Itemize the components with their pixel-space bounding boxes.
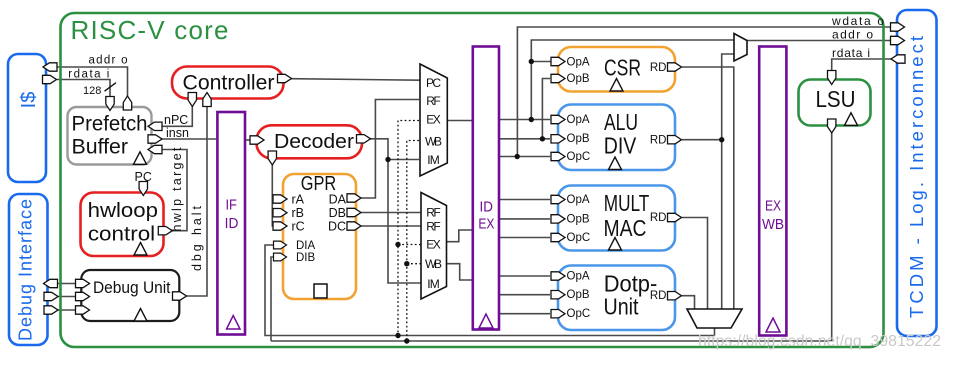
svg-text:rdata i: rdata i	[832, 46, 870, 60]
svg-text:PC: PC	[135, 170, 152, 184]
wire mux2 output jog lower to ID/EX	[446, 264, 473, 280]
svg-text:EX: EX	[478, 216, 494, 233]
wire GPR DC to mux2 RF input	[361, 225, 421, 227]
port LSU out	[828, 119, 836, 133]
svg-text:OpB: OpB	[567, 133, 590, 145]
CSR clock	[610, 79, 623, 92]
port Prefetch insn	[148, 135, 162, 143]
port GPR DB	[347, 208, 361, 216]
wire ID/EX OpB line to ALU	[499, 138, 550, 140]
wire ALU RD up to addr mux	[722, 54, 734, 140]
svg-text:DIA: DIA	[296, 240, 316, 252]
labels GPR ports	[292, 192, 347, 263]
port Debug Unit in1	[76, 279, 90, 287]
svg-text:IF: IF	[225, 197, 237, 214]
wire ID/EX to MULT OpB	[499, 218, 550, 220]
svg-text:128: 128	[83, 85, 101, 97]
port ALU OpA	[551, 115, 565, 123]
port I$ rdata in	[43, 75, 57, 83]
port LSU rdata in	[828, 71, 836, 85]
wire ALU RD down to writeback mux	[721, 140, 723, 309]
svg-text:WB: WB	[425, 135, 442, 149]
wire GPR DB to mux2 RF input	[361, 212, 421, 214]
svg-text:RD: RD	[650, 134, 667, 146]
wire rdata_i to LSU	[832, 59, 891, 70]
svg-text:addr o: addr o	[89, 54, 128, 66]
svg-text:IM: IM	[427, 153, 440, 167]
svg-text:EX: EX	[426, 238, 441, 252]
port wdata_o	[891, 23, 905, 31]
svg-text:CSR: CSR	[604, 55, 641, 81]
port MULT OpC	[551, 233, 565, 241]
wire Controller output to mux1 PC input	[291, 79, 420, 81]
svg-text:OpB: OpB	[567, 213, 590, 225]
mux addr select	[734, 34, 747, 62]
svg-text:RF: RF	[426, 206, 441, 220]
svg-text:RF: RF	[426, 220, 441, 234]
port Prefetch hwlp target	[148, 145, 162, 153]
Prefetch Buffer box	[68, 107, 152, 165]
svg-text:DB: DB	[329, 206, 346, 220]
ALU clock	[609, 157, 622, 170]
port Controller dbg in	[203, 93, 211, 107]
svg-text:MAC: MAC	[604, 215, 647, 241]
wire GPR DIB from line2	[271, 257, 274, 341]
wire MULT RD down to writeback mux	[682, 218, 708, 310]
mux writeback select	[687, 309, 742, 328]
port Prefetch nPC	[148, 122, 162, 130]
wire GPR DA to mux1 RF input	[361, 100, 419, 199]
svg-text:DIB: DIB	[296, 252, 316, 264]
port Dotp RD	[668, 292, 682, 300]
Controller box	[172, 67, 284, 99]
svg-text:LSU: LSU	[816, 86, 856, 112]
port Prefetch rdata top	[106, 97, 114, 111]
port Debug Unit in2	[76, 292, 90, 300]
port CSR RD	[668, 63, 682, 71]
port hwloop target out	[158, 227, 172, 235]
hwloop control clock	[134, 243, 147, 256]
wire debug interface to debug unit 2	[58, 296, 76, 298]
port ALU RD	[668, 136, 682, 144]
wire ID/EX to Dotp OpB	[499, 294, 550, 296]
svg-text:ALU: ALU	[604, 109, 638, 135]
port MULT OpB	[551, 215, 565, 223]
svg-text:control: control	[88, 223, 155, 246]
wire ID/EX OpA line to ALU	[499, 119, 550, 121]
svg-text:DC: DC	[328, 220, 346, 234]
LSU box	[799, 80, 871, 126]
svg-text:ID: ID	[225, 215, 239, 232]
wire ID/EX to MULT OpC	[499, 237, 550, 239]
port I$ addr out	[43, 63, 57, 71]
svg-text:WB: WB	[762, 216, 784, 233]
svg-text:Prefetch: Prefetch	[72, 112, 148, 136]
port Debug Unit out	[173, 292, 187, 300]
svg-text:DA: DA	[329, 192, 347, 206]
port GPR rA	[273, 195, 287, 203]
port ALU OpB	[551, 135, 565, 143]
svg-text:hwloop: hwloop	[88, 199, 158, 222]
wire hwlp_target hwloop control to Prefetch Buffer	[161, 150, 187, 231]
svg-text:OpB: OpB	[567, 73, 590, 85]
port Dotp OpC	[551, 310, 565, 318]
port MULT OpA	[551, 195, 565, 203]
svg-text:OpA: OpA	[567, 270, 590, 282]
svg-text:rB: rB	[292, 206, 305, 220]
ALU DIV box	[558, 105, 675, 171]
EX/WB pipeline register	[759, 47, 786, 336]
svg-text:RD: RD	[650, 62, 667, 74]
svg-text:OpB: OpB	[567, 289, 590, 301]
svg-text:Unit: Unit	[604, 294, 640, 320]
port Debug Interface in1	[44, 292, 58, 300]
wire mux1 output to ID/EX	[447, 120, 473, 122]
svg-text:MULT: MULT	[604, 190, 650, 216]
wire addr mux output to addr_o	[747, 40, 891, 42]
wire nPC from Controller to Prefetch Buffer	[161, 105, 192, 126]
wire debug interface to debug unit 3	[58, 309, 76, 311]
wire ID/EX to Dotp OpA	[499, 275, 550, 277]
wire Dotp RD down to writeback mux	[682, 296, 695, 309]
port Debug Interface out	[44, 279, 58, 287]
svg-text:DIV: DIV	[604, 133, 637, 159]
wire dbg_halt Debug Unit to Controller	[187, 105, 208, 296]
bus width slash on rdata_i	[105, 83, 117, 92]
svg-text:TCDM - Log. Interconnect: TCDM - Log. Interconnect	[906, 36, 927, 318]
TCDM Log Interconnect box	[897, 10, 937, 336]
svg-text:I$: I$	[18, 92, 40, 109]
svg-text:RISC-V core: RISC-V core	[71, 15, 230, 45]
svg-text:WB: WB	[425, 257, 442, 271]
svg-text:RD: RD	[650, 290, 667, 302]
Dotp-Unit box	[558, 266, 675, 331]
svg-text:rdata i: rdata i	[68, 68, 109, 80]
wire Decoder output to IM nets	[370, 139, 421, 283]
port CSR OpB	[551, 74, 565, 82]
port PC into hwloop	[139, 182, 147, 196]
ID/EX clock	[479, 314, 493, 328]
svg-text:dbg halt: dbg halt	[190, 205, 204, 271]
svg-text:hwlp target: hwlp target	[170, 147, 184, 232]
wire CSR RD down to writeback mux	[682, 67, 734, 309]
svg-text:RD: RD	[650, 212, 667, 224]
MULT MAC box	[558, 186, 675, 251]
port Decoder regs down	[268, 151, 276, 165]
port Controller nPC out	[188, 93, 196, 107]
I$ box	[8, 54, 46, 182]
wire branch to CSR OpB	[542, 79, 550, 139]
svg-text:EX: EX	[765, 198, 781, 215]
wire writeback line1 to GPR DIA	[265, 245, 715, 336]
svg-text:ID: ID	[480, 199, 494, 216]
dashed EX forwarding net	[398, 121, 421, 336]
port Decoder out	[357, 135, 371, 143]
port Dotp OpB	[551, 291, 565, 299]
port Decoder in	[250, 136, 264, 144]
labels Dotp ports	[567, 270, 667, 320]
wire writeback mux output	[714, 328, 716, 336]
port GPR rB	[273, 209, 287, 217]
mux1 operand A forwarding	[420, 64, 447, 176]
port addr_o	[891, 36, 905, 44]
svg-text:RF: RF	[426, 94, 441, 108]
svg-text:addr o: addr o	[832, 28, 873, 42]
svg-text:rA: rA	[292, 192, 305, 206]
wire IM branch to mux1	[388, 159, 419, 161]
port Prefetch addr top	[123, 96, 131, 110]
svg-text:https://blog.csdn.net/qq_39815: https://blog.csdn.net/qq_39815222	[698, 333, 941, 350]
wire insn Prefetch to IF/ID	[161, 138, 216, 140]
wire ID/EX to MULT OpA	[499, 199, 550, 201]
port MULT RD	[668, 213, 682, 221]
ID/EX pipeline register	[473, 47, 499, 330]
wire OpC to wdata_o riser	[517, 27, 891, 157]
wire ID/EX to Dotp OpC	[499, 313, 550, 315]
wire ID/EX OpC line to ALU	[499, 156, 550, 158]
wire addr_o to I$	[57, 67, 128, 96]
mux2 operand B forwarding	[421, 193, 447, 300]
svg-text:Controller: Controller	[183, 72, 275, 95]
CSR box	[558, 47, 675, 92]
Debug Unit box	[81, 270, 179, 321]
labels MULT ports	[567, 194, 667, 244]
port Controller out	[278, 74, 292, 82]
port GPR rC	[273, 222, 287, 230]
svg-text:nPC: nPC	[164, 113, 188, 127]
RISC-V core boundary	[61, 13, 884, 347]
port Dotp OpA	[551, 272, 565, 280]
wire ALU RD junction	[682, 139, 722, 141]
svg-text:Decoder: Decoder	[274, 130, 354, 153]
port ALU OpC	[551, 152, 565, 160]
svg-text:Debug Interface: Debug Interface	[16, 199, 36, 341]
svg-text:OpC: OpC	[567, 232, 591, 244]
EX/WB clock	[766, 318, 780, 332]
svg-text:Debug Unit: Debug Unit	[93, 278, 171, 297]
port Debug Interface in2	[44, 306, 58, 314]
Prefetch Buffer clock	[134, 152, 147, 165]
Decoder box	[257, 125, 363, 158]
wire debug interface to debug unit 1	[57, 283, 76, 285]
svg-text:PC: PC	[426, 76, 441, 90]
wire insn IF/ID to Decoder	[245, 139, 250, 141]
wire LSU output down	[271, 133, 832, 341]
Debug Interface box	[9, 194, 48, 345]
wire Decoder to GPR read ports vertical	[272, 164, 274, 226]
svg-text:rC: rC	[292, 220, 305, 234]
LSU clock	[845, 113, 858, 126]
svg-text:OpC: OpC	[567, 151, 591, 163]
wire rdata_i from I$	[57, 80, 110, 97]
svg-text:OpA: OpA	[567, 194, 590, 206]
port rdata_i	[891, 55, 905, 63]
GPR box	[283, 174, 356, 299]
hwloop control box	[81, 193, 164, 257]
wire OpA to addr_o riser	[531, 40, 734, 120]
IF/ID clock	[227, 316, 241, 330]
labels mux2 RF RF EX WB IM	[425, 206, 442, 292]
svg-text:insn: insn	[166, 126, 189, 140]
port GPR DIA	[274, 241, 287, 249]
svg-text:Buffer: Buffer	[72, 135, 129, 159]
IF/ID pipeline register	[217, 112, 245, 335]
port GPR DIB	[274, 253, 287, 261]
svg-text:EX: EX	[426, 113, 441, 127]
dashed WB forwarding net	[407, 141, 421, 342]
port GPR DA	[347, 194, 361, 202]
svg-text:OpA: OpA	[567, 57, 590, 69]
wire mux2 output jog upper to ID/EX	[446, 230, 473, 242]
MULT clock	[609, 238, 622, 251]
wire branch to CSR OpA	[531, 61, 551, 63]
svg-text:OpC: OpC	[567, 308, 591, 320]
labels mux1 PC RF EX WB IM	[425, 76, 442, 167]
port CSR OpA	[551, 57, 565, 65]
Debug Unit clock	[134, 309, 147, 322]
port GPR DC	[347, 222, 361, 230]
GPR clock square	[314, 284, 327, 298]
labels CSR ports	[567, 57, 667, 86]
svg-text:OpA: OpA	[567, 114, 590, 126]
labels ALU ports	[567, 114, 667, 163]
port Debug Unit in3	[76, 306, 90, 314]
svg-text:IM: IM	[427, 277, 440, 291]
